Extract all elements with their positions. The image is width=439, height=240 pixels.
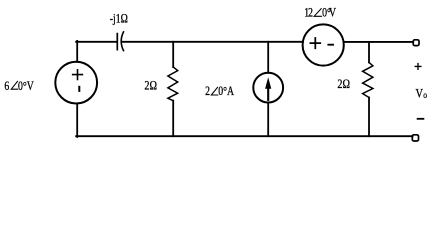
wire top right (source V2 to terminal) bbox=[344, 41, 413, 43]
wire bottom of current source I1 bbox=[267, 103, 269, 137]
label minus of output bbox=[418, 118, 424, 120]
wire bottom horizontal bbox=[76, 135, 412, 137]
angle symbol of 6 angle 0 V bbox=[11, 81, 18, 89]
label Vo output voltage bbox=[416, 86, 428, 100]
value label 2 angle 0 A bbox=[205, 85, 235, 99]
svg-text:2Ω: 2Ω bbox=[144, 78, 157, 92]
svg-text:V: V bbox=[329, 6, 337, 20]
svg-text:0°V: 0°V bbox=[18, 80, 34, 94]
resistor R2 2 ohm zigzag bbox=[363, 62, 373, 97]
wire top-left horizontal (corner to capacitor) bbox=[76, 41, 116, 43]
value label 6 angle 0 V bbox=[4, 80, 34, 94]
wire left vertical top (corner to source V1) bbox=[76, 41, 78, 62]
svg-text:V: V bbox=[416, 86, 424, 100]
value label 12 angle 0 V bbox=[304, 6, 336, 20]
terminal bottom right open circle bbox=[412, 135, 418, 141]
node B junction top of R2 bbox=[368, 42, 370, 63]
wire bottom of R1 bbox=[172, 101, 174, 137]
angle symbol of 12 angle 0 V bbox=[314, 9, 321, 17]
svg-text:2Ω: 2Ω bbox=[337, 77, 350, 91]
svg-text:o: o bbox=[423, 89, 427, 100]
current source I1 2 angle 0 A bbox=[253, 73, 283, 103]
label + of output bbox=[415, 64, 421, 70]
svg-text:2: 2 bbox=[308, 6, 313, 20]
voltage source V1 6 angle 0 V bbox=[55, 62, 97, 104]
wire bottom of R2 bbox=[368, 98, 370, 137]
node A junction top of R1 bbox=[172, 42, 174, 67]
resistor R1 2 ohm zigzag bbox=[168, 67, 178, 101]
wire left vertical bottom (source V1 to corner) bbox=[76, 104, 78, 137]
wire top middle (capacitor to source V2) bbox=[121, 41, 302, 43]
capacitor C1 -j1 ohm bbox=[117, 32, 123, 51]
angle symbol of 2 angle 0 A bbox=[211, 87, 218, 95]
svg-text:2: 2 bbox=[205, 85, 210, 99]
wire top of current source I1 bbox=[267, 42, 269, 73]
terminal top right open circle bbox=[413, 40, 419, 46]
svg-text:-j1Ω: -j1Ω bbox=[110, 12, 128, 26]
svg-text:6: 6 bbox=[4, 80, 9, 94]
svg-text:0°A: 0°A bbox=[218, 85, 234, 99]
voltage source V2 12 angle 0 V bbox=[303, 24, 344, 65]
